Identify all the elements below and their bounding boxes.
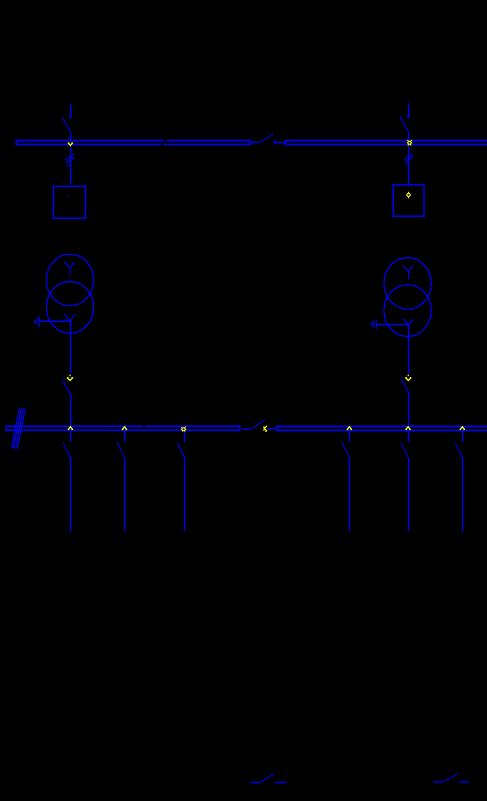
feeder 5 wire <box>408 457 410 531</box>
feeder 3 wire <box>184 457 186 531</box>
T2 wye symbol HV <box>403 265 413 279</box>
feeder 2 switch blade <box>117 442 124 457</box>
T2 neutral wire <box>377 324 409 326</box>
disconnect switch blade QS1 (left incoming) <box>62 117 70 131</box>
switch blade T1 to lower bus <box>62 379 71 394</box>
bus break hatch marks <box>12 408 26 450</box>
wire bus tie left stub (lower) <box>242 428 252 430</box>
feeder 2 wire <box>124 457 126 531</box>
T1 neutral wire <box>40 320 71 322</box>
T1 wye symbol LV <box>64 314 74 321</box>
feeder 5 switch blade <box>401 442 408 457</box>
T2 neutral ground <box>371 319 376 329</box>
metering box left (square) <box>54 186 86 218</box>
T2 wye symbol LV <box>403 318 413 324</box>
legend switch symbol 2 (bottom right) <box>433 774 469 782</box>
bus tie fixed contact (upper) <box>274 140 276 145</box>
node grip: lower bus junction 5 <box>405 427 410 430</box>
wire T1 to lower bus <box>70 395 72 426</box>
feeder 4 stub below bus <box>349 431 351 442</box>
wire T2 to lower bus <box>408 392 410 426</box>
wire bus tie right stub (upper) <box>275 141 285 143</box>
busbar W1 upper left section <box>16 141 250 145</box>
node grip: T2 drop contact <box>405 375 411 381</box>
busbar W2 upper right section <box>286 141 487 145</box>
wire bus tie right stub (lower) <box>268 428 276 430</box>
transformer T2 HV winding circle <box>384 258 431 309</box>
node grip: right incoming at upper bus (star) <box>407 140 412 146</box>
node grip: right metering box center (star) <box>406 192 411 199</box>
wire drop from bus to box left <box>70 146 72 184</box>
node grip: left incoming at upper bus <box>68 142 73 145</box>
notch gap in bus top edge <box>143 425 145 427</box>
switch blade T2 to lower bus <box>401 379 408 392</box>
feeder 2 stub below bus <box>124 431 126 442</box>
feeder 6 switch blade <box>455 442 462 457</box>
wire bus tie left stub (upper) <box>251 141 260 143</box>
feeder 1 switch blade <box>63 442 70 457</box>
feeder 6 wire <box>462 457 464 531</box>
bus tie disconnect blade (lower) <box>252 420 265 429</box>
transformer T1 LV winding circle <box>46 282 93 334</box>
busbar W4 lower right section <box>277 426 487 430</box>
transformer T2 LV winding circle <box>384 285 431 337</box>
feeder 4 switch blade <box>342 442 349 457</box>
transformer T1 HV winding circle <box>46 254 93 305</box>
notch gap in upper bus top edge <box>165 139 167 141</box>
node grip: T1 drop contact <box>67 375 73 381</box>
node grip: lower bus junction 4 <box>347 427 352 430</box>
wire T2 LV stem down <box>408 325 410 375</box>
node grip: lower bus junction 2 <box>122 427 127 430</box>
feeder 6 stub below bus <box>462 431 464 442</box>
center mark dot in left box <box>69 195 70 196</box>
node grip: lower bus junction 1 <box>68 427 73 430</box>
feeder 3 switch blade <box>177 442 184 457</box>
node grip: lower bus junction 3 (star) <box>181 426 187 431</box>
feeder 4 wire <box>349 457 351 531</box>
metering box right (square) <box>393 185 424 216</box>
disconnect switch blade QS2 (right incoming) <box>400 116 408 131</box>
T1 wye symbol HV <box>64 262 74 276</box>
feeder 1 wire <box>70 457 72 531</box>
legend switch symbol 1 (bottom) <box>250 774 286 783</box>
incoming line arrow right <box>406 103 410 118</box>
feeder 1 stub below bus <box>70 431 72 442</box>
cable termination symbol left <box>65 155 75 166</box>
node grip: lower bus tie contact <box>264 426 267 432</box>
wire left incoming to bus <box>70 131 72 140</box>
feeder 5 stub below bus <box>408 431 410 442</box>
incoming line arrow left <box>68 104 72 119</box>
wire T1 LV stem down <box>70 321 72 373</box>
busbar W3 lower left section <box>6 426 240 430</box>
wire drop from bus to box right <box>408 146 410 185</box>
bus tie disconnect blade (upper) <box>260 134 273 142</box>
cable termination symbol right <box>404 154 414 164</box>
notch gap in upper bus bottom edge <box>162 143 164 145</box>
T1 neutral ground <box>34 316 39 327</box>
feeder 3 stub below bus <box>184 431 186 442</box>
wire right incoming to bus <box>408 131 410 140</box>
node grip: lower bus junction 6 <box>460 427 465 430</box>
